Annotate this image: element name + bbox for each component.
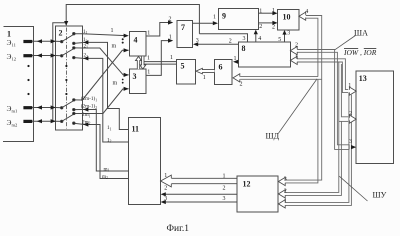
wire row Эm2 (32, 120, 55, 122)
svg-text:m: m (112, 43, 117, 49)
svg-text:13: 13 (359, 74, 367, 83)
hollow arrow into block 13 pin 1 (349, 87, 356, 95)
hollow arrow into block 6 pin 2 (data bus) (233, 74, 240, 82)
wire upper contact row2 to pin (74, 47, 83, 49)
block 11 (129, 118, 161, 205)
arrow into block 10 input 2 (272, 21, 277, 25)
svg-text:2: 2 (229, 38, 232, 44)
arrow into block 4 input m (124, 48, 129, 52)
wire: pin 2m-1 diagonal to block 3 input m (82, 89, 128, 114)
bus shaft block 6 pin 2 tee (240, 76, 318, 78)
svg-text:1: 1 (147, 55, 150, 61)
block 12 (237, 176, 278, 212)
svg-text:Эm2: Эm2 (7, 118, 19, 128)
svg-text:4: 4 (305, 9, 308, 15)
svg-text:1: 1 (259, 9, 262, 15)
wire: pin 1-2 riser to block 11 input 1-1 (83, 42, 129, 129)
svg-text:2: 2 (169, 17, 172, 23)
svg-text:3: 3 (284, 177, 287, 183)
wire: junction 4-3 to block 5 input upper (143, 61, 177, 63)
svg-text:8: 8 (242, 44, 246, 53)
svg-text:3: 3 (223, 196, 226, 202)
arrows row Э11 (37, 39, 42, 43)
svg-text:3: 3 (133, 72, 137, 81)
switch row 2m-1 (Эm1): common dot, blade, contacts (61, 107, 63, 109)
arrow into block 7 input 1 (168, 39, 173, 43)
svg-text:1: 1 (147, 31, 150, 37)
block 1 (element panel, open left side) (3, 26, 34, 141)
svg-text:1: 1 (164, 173, 167, 179)
svg-text:1: 1 (213, 14, 216, 20)
hollow arrow into block 13 pin 2 (349, 115, 356, 123)
switch row 2 (Э12): common dot, blade, contacts (61, 55, 63, 57)
hollow arrow into block 12 pin 1 (278, 200, 285, 208)
wire: junction 4-3 to block 5 input lower (143, 63, 177, 65)
svg-text:3: 3 (196, 38, 199, 44)
svg-text:3: 3 (164, 196, 167, 202)
svg-text:2: 2 (295, 43, 298, 49)
wire: block 4 output to block 7 input 2 (146, 23, 169, 37)
svg-text:Фиг.1: Фиг.1 (167, 224, 190, 234)
bidirectional hollow arrows between blocks 4 and 3 (136, 56, 146, 69)
svg-text:1: 1 (284, 198, 287, 204)
pointer line for bus label ША (335, 36, 356, 50)
wire row Э12 (32, 55, 55, 57)
svg-text:1: 1 (272, 8, 275, 14)
wire row Эm1 (32, 107, 55, 109)
svg-text:Э11: Э11 (7, 38, 17, 48)
pad Эm2 (23, 120, 32, 123)
svg-text:1: 1 (203, 75, 206, 81)
svg-text:5: 5 (278, 37, 281, 43)
svg-text:1: 1 (111, 28, 114, 34)
svg-text:m2: m2 (102, 174, 108, 180)
arrows row Эm1 (37, 105, 42, 109)
svg-text:ШД: ШД (266, 132, 280, 141)
svg-text:ША: ША (354, 29, 368, 38)
svg-text:m: m (113, 81, 118, 87)
svg-text:11: 11 (132, 125, 140, 134)
wire lower contact row2 to pin (74, 57, 83, 60)
svg-text:2: 2 (240, 82, 243, 88)
hollow down arrow into block 3 top (140, 56, 146, 69)
bus shaft block 10 pin 4 (285, 16, 322, 181)
svg-text:3: 3 (243, 36, 246, 42)
dots block 3 inputs (122, 79, 124, 81)
block 10 (278, 10, 299, 30)
svg-text:1: 1 (234, 56, 237, 62)
pointer line for bus label ШУ (339, 176, 367, 201)
hollow arrow into block 10 pin 4 (299, 12, 306, 20)
dots block 4 inputs (122, 38, 124, 40)
TEXT-LABELS (7, 38, 19, 127)
switches inside block 2 (61, 33, 76, 125)
svg-text:(2m-1)1: (2m-1)1 (81, 95, 97, 102)
svg-text:2: 2 (272, 24, 275, 30)
arrow into block 11 pin 2 (161, 192, 166, 196)
hollow arrow block 6 output to block 5 (196, 68, 215, 74)
block 8 (238, 42, 290, 67)
svg-text:1: 1 (170, 55, 173, 61)
wire: block 9 output 1 to block 10 input 1 (258, 12, 273, 14)
wire lower contact row 2m to pin (74, 123, 83, 124)
wire row Э12 inside block 2 (55, 55, 61, 57)
pad Э12 (23, 54, 32, 57)
arrow into block 7 input 2 (168, 20, 173, 24)
svg-text:2: 2 (59, 29, 63, 38)
pointer line for bus label ШД (279, 79, 318, 133)
svg-text:5: 5 (181, 62, 185, 71)
arrow into pin 2-2 (83, 56, 88, 60)
svg-text:(2m-1)2: (2m-1)2 (81, 103, 97, 110)
wire: pin (2m-1)-1 long diagonal to block 4 input m (82, 50, 128, 100)
svg-text:Эm1: Эm1 (7, 104, 19, 114)
block 7 (177, 20, 193, 47)
svg-text:22: 22 (84, 53, 89, 59)
arrows row Эm2 (37, 119, 42, 123)
svg-text:1: 1 (169, 35, 172, 41)
arrow into block 9 input 1 (213, 21, 218, 25)
arrow down into block 2 top (64, 21, 68, 26)
arrow into pin 2m-2 (83, 122, 88, 126)
block 6 (215, 60, 232, 85)
svg-text:2: 2 (223, 185, 226, 191)
hollow arrow into block 12 pin 3 (278, 177, 285, 185)
svg-text:6: 6 (219, 63, 223, 72)
WIRES-LEFT (32, 5, 199, 129)
solid arrow into block 13 pin 3 (351, 145, 356, 149)
bus PD: from block 8 pin 1 area down, tee to block 13 pin 2, down to block 12 pin 2 (285, 62, 339, 192)
dots column block 1 (27, 65, 29, 67)
wire: block 8 pin 1 to block 6 input 1 (237, 61, 238, 63)
wire row Э11 (32, 40, 55, 42)
arrow into block 11 pin 3 (161, 200, 166, 204)
hollow bus arrow block 12 output 1 to block 11 pin 1 (161, 175, 237, 187)
svg-text:3: 3 (349, 139, 352, 145)
WIRES-BOTTOM (166, 194, 238, 202)
svg-text:2: 2 (349, 111, 352, 117)
wire: block 8 pin 4 riser to block 9 bottom (255, 33, 257, 42)
wire: pin 1-1 to block 4 input 1 (82, 34, 125, 36)
svg-text:1: 1 (348, 83, 351, 89)
WIRES-MID (82, 23, 238, 179)
wire row Эm2 inside block 2 (55, 120, 61, 122)
wire upper contact row 2m to pin (74, 113, 83, 115)
wire: common vertical left of block 2 (53, 23, 66, 121)
svg-text:4: 4 (134, 36, 138, 45)
svg-text:Э12: Э12 (7, 52, 17, 62)
pad Эm1 (23, 106, 32, 109)
svg-text:2: 2 (164, 185, 167, 191)
svg-text:4: 4 (258, 36, 261, 42)
svg-text:2m2: 2m2 (82, 119, 91, 125)
wire row Э11 inside block 2 (55, 40, 61, 42)
hollow arrow into block 8 pin 1 (IOW/IOR) (290, 56, 297, 64)
hollow arrow into block 8 pin 2 (address bus) (290, 47, 297, 55)
wire upper contact row1 to pin (74, 33, 83, 35)
wire: block 12 output 3 to block 11 pin 3 (166, 201, 238, 203)
block 2 dash-dot select line (65, 28, 67, 129)
svg-text:12: 12 (243, 180, 251, 189)
wire: block 7 output to block 9 input (193, 22, 215, 24)
arrow into block 6 input 1 (233, 60, 238, 64)
pad Э11 (23, 40, 32, 43)
wire: block 8 pin 3 riser and link to node X (199, 34, 247, 42)
arrow into block 3 input m (124, 87, 129, 91)
arrow into pin (2m-1)-2 (83, 107, 88, 111)
svg-text:1: 1 (223, 173, 226, 179)
arrow up into block 9 bottom (pin 4) (254, 30, 258, 35)
block 5 (177, 59, 196, 84)
wire: pin 2-2 riser to block 11 input 1-2 (83, 58, 129, 142)
svg-text:11: 11 (107, 125, 112, 131)
wire row Эm1 inside block 2 (55, 107, 61, 109)
WIRES-RIGHT (199, 13, 284, 42)
arrow into block 10 input 1 (272, 11, 277, 15)
wire: block 9 output 2 to block 10 input 2 (258, 22, 273, 24)
wire: block 12 output 2 to block 11 pin 2 (166, 193, 238, 195)
svg-text:9: 9 (222, 12, 226, 21)
wire: block 8 pin 2 to block 7 input 3 (197, 43, 238, 45)
bus PB: address bus from block 8 pin 2 down to block 13 pin 3 (297, 50, 349, 150)
arrow into pin 1-2 (83, 40, 88, 44)
switch row 2m (Эm2): common dot, blade, contacts (61, 120, 63, 122)
switch row 1 (Э11): common dot, blade, contacts (61, 40, 63, 42)
svg-text:2: 2 (259, 24, 262, 30)
svg-text:3: 3 (287, 31, 290, 37)
block 3 (129, 69, 146, 93)
block 2 (switch commutator) (55, 26, 82, 130)
block 9 (219, 8, 259, 29)
block 13 (356, 71, 393, 164)
arrow into block 7 input 3 (from block 8) (193, 42, 198, 46)
wire lower contact row 2m-1 to pin (74, 109, 83, 111)
svg-text:IOW , IOR: IOW , IOR (343, 48, 377, 57)
hollow up arrow into block 4 bottom (136, 57, 142, 70)
wire: block 8 pin 5 riser to block 10 bottom (284, 34, 286, 42)
wire: pin 2m-2 riser to block 11 input m-2 (83, 125, 129, 179)
arrow into block 3 input 1 (124, 73, 129, 77)
arrows row Э12 (37, 53, 42, 57)
bus PA: data bus from block 10 pin 4 down to block 12 pin 3 (240, 16, 351, 206)
svg-text:7: 7 (181, 23, 185, 32)
svg-text:21: 21 (84, 43, 89, 49)
svg-text:1: 1 (147, 70, 150, 76)
block 4 (129, 32, 146, 57)
wire: feedback line top from node X to block 2 top (66, 5, 199, 34)
wire: pin 2-1 diagonal to block 3 input 1 (82, 48, 128, 75)
dots column block 2 (65, 65, 67, 67)
svg-text:11: 11 (83, 29, 88, 35)
wire upper contact row 2m-1 to pin (74, 99, 83, 101)
hollow arrow into block 12 pin 2 (278, 190, 285, 198)
svg-text:10: 10 (283, 13, 291, 22)
wire: pin (2m-1)-2 riser to block 11 input m-1 (83, 110, 129, 172)
arrow up into block 10 bottom (pin 5) (282, 30, 286, 35)
svg-text:m1: m1 (104, 166, 110, 172)
bus PE: from block 13 pin 1 area down to block 12 pin 1 (285, 93, 349, 203)
wire lower contact row1 to pin (74, 42, 83, 45)
svg-text:12: 12 (107, 138, 112, 144)
svg-text:2: 2 (284, 188, 287, 194)
svg-text:ШУ: ШУ (373, 191, 387, 200)
bus PC: IOW/IOR from block 8 pin 1 down to block 13 pin 1 (297, 59, 348, 90)
wire: block 3 output to block 7 input 1 (146, 41, 169, 76)
arrow into block 4 input 1 (124, 34, 129, 38)
svg-text:1: 1 (295, 54, 298, 60)
